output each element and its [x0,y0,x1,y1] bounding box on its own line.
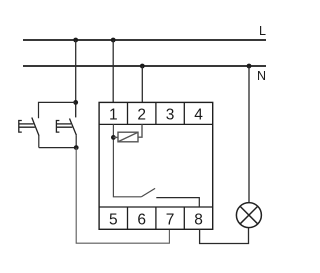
svg-text:8: 8 [194,211,203,228]
node coil tap A [111,135,116,140]
wire S1 bottom stub [38,136,40,148]
svg-text:6: 6 [137,211,146,228]
wire terminal 1 to internal switch [113,124,141,196]
relay contact blade [141,188,155,196]
wire L bus [23,39,266,41]
wire S2 bottom stub [75,135,77,147]
node pushbutton top junction [73,100,78,105]
node junction on N (terminal 2 drop) [140,64,145,69]
wire L to terminal 1 [112,40,114,102]
lamp E1 [236,203,261,228]
relay module box U1 [99,102,213,229]
wire N bus [23,65,266,67]
relay coil K1 [113,124,142,141]
node junction on L (left) [73,38,78,43]
svg-text:1: 1 [109,106,118,123]
svg-text:5: 5 [109,211,118,228]
wire pushbutton top rail [39,102,76,118]
svg-text:7: 7 [166,211,175,228]
wire pushbutton bottom rail [39,147,76,149]
svg-text:4: 4 [194,106,203,123]
wire contact to terminal 8 [156,198,199,207]
node junction on L (right) [111,38,116,43]
terminal strip bottom row [99,207,213,229]
node junction on N (lamp drop) [247,64,252,69]
node pushbutton bottom junction [74,145,79,150]
pushbutton S2 [56,102,76,135]
wire L to pushbutton top node [75,40,77,102]
wire N to terminal 2 [141,66,143,102]
svg-text:L: L [259,24,266,38]
svg-text:2: 2 [137,106,146,123]
svg-text:3: 3 [166,106,175,123]
svg-text:N: N [257,69,266,83]
terminal strip top row [99,102,213,124]
pushbutton S1 [19,118,39,136]
wire terminal 8 to lamp bottom [200,228,249,244]
wire N to lamp top [248,66,250,203]
wire pushbutton to terminal 7 [76,148,169,244]
